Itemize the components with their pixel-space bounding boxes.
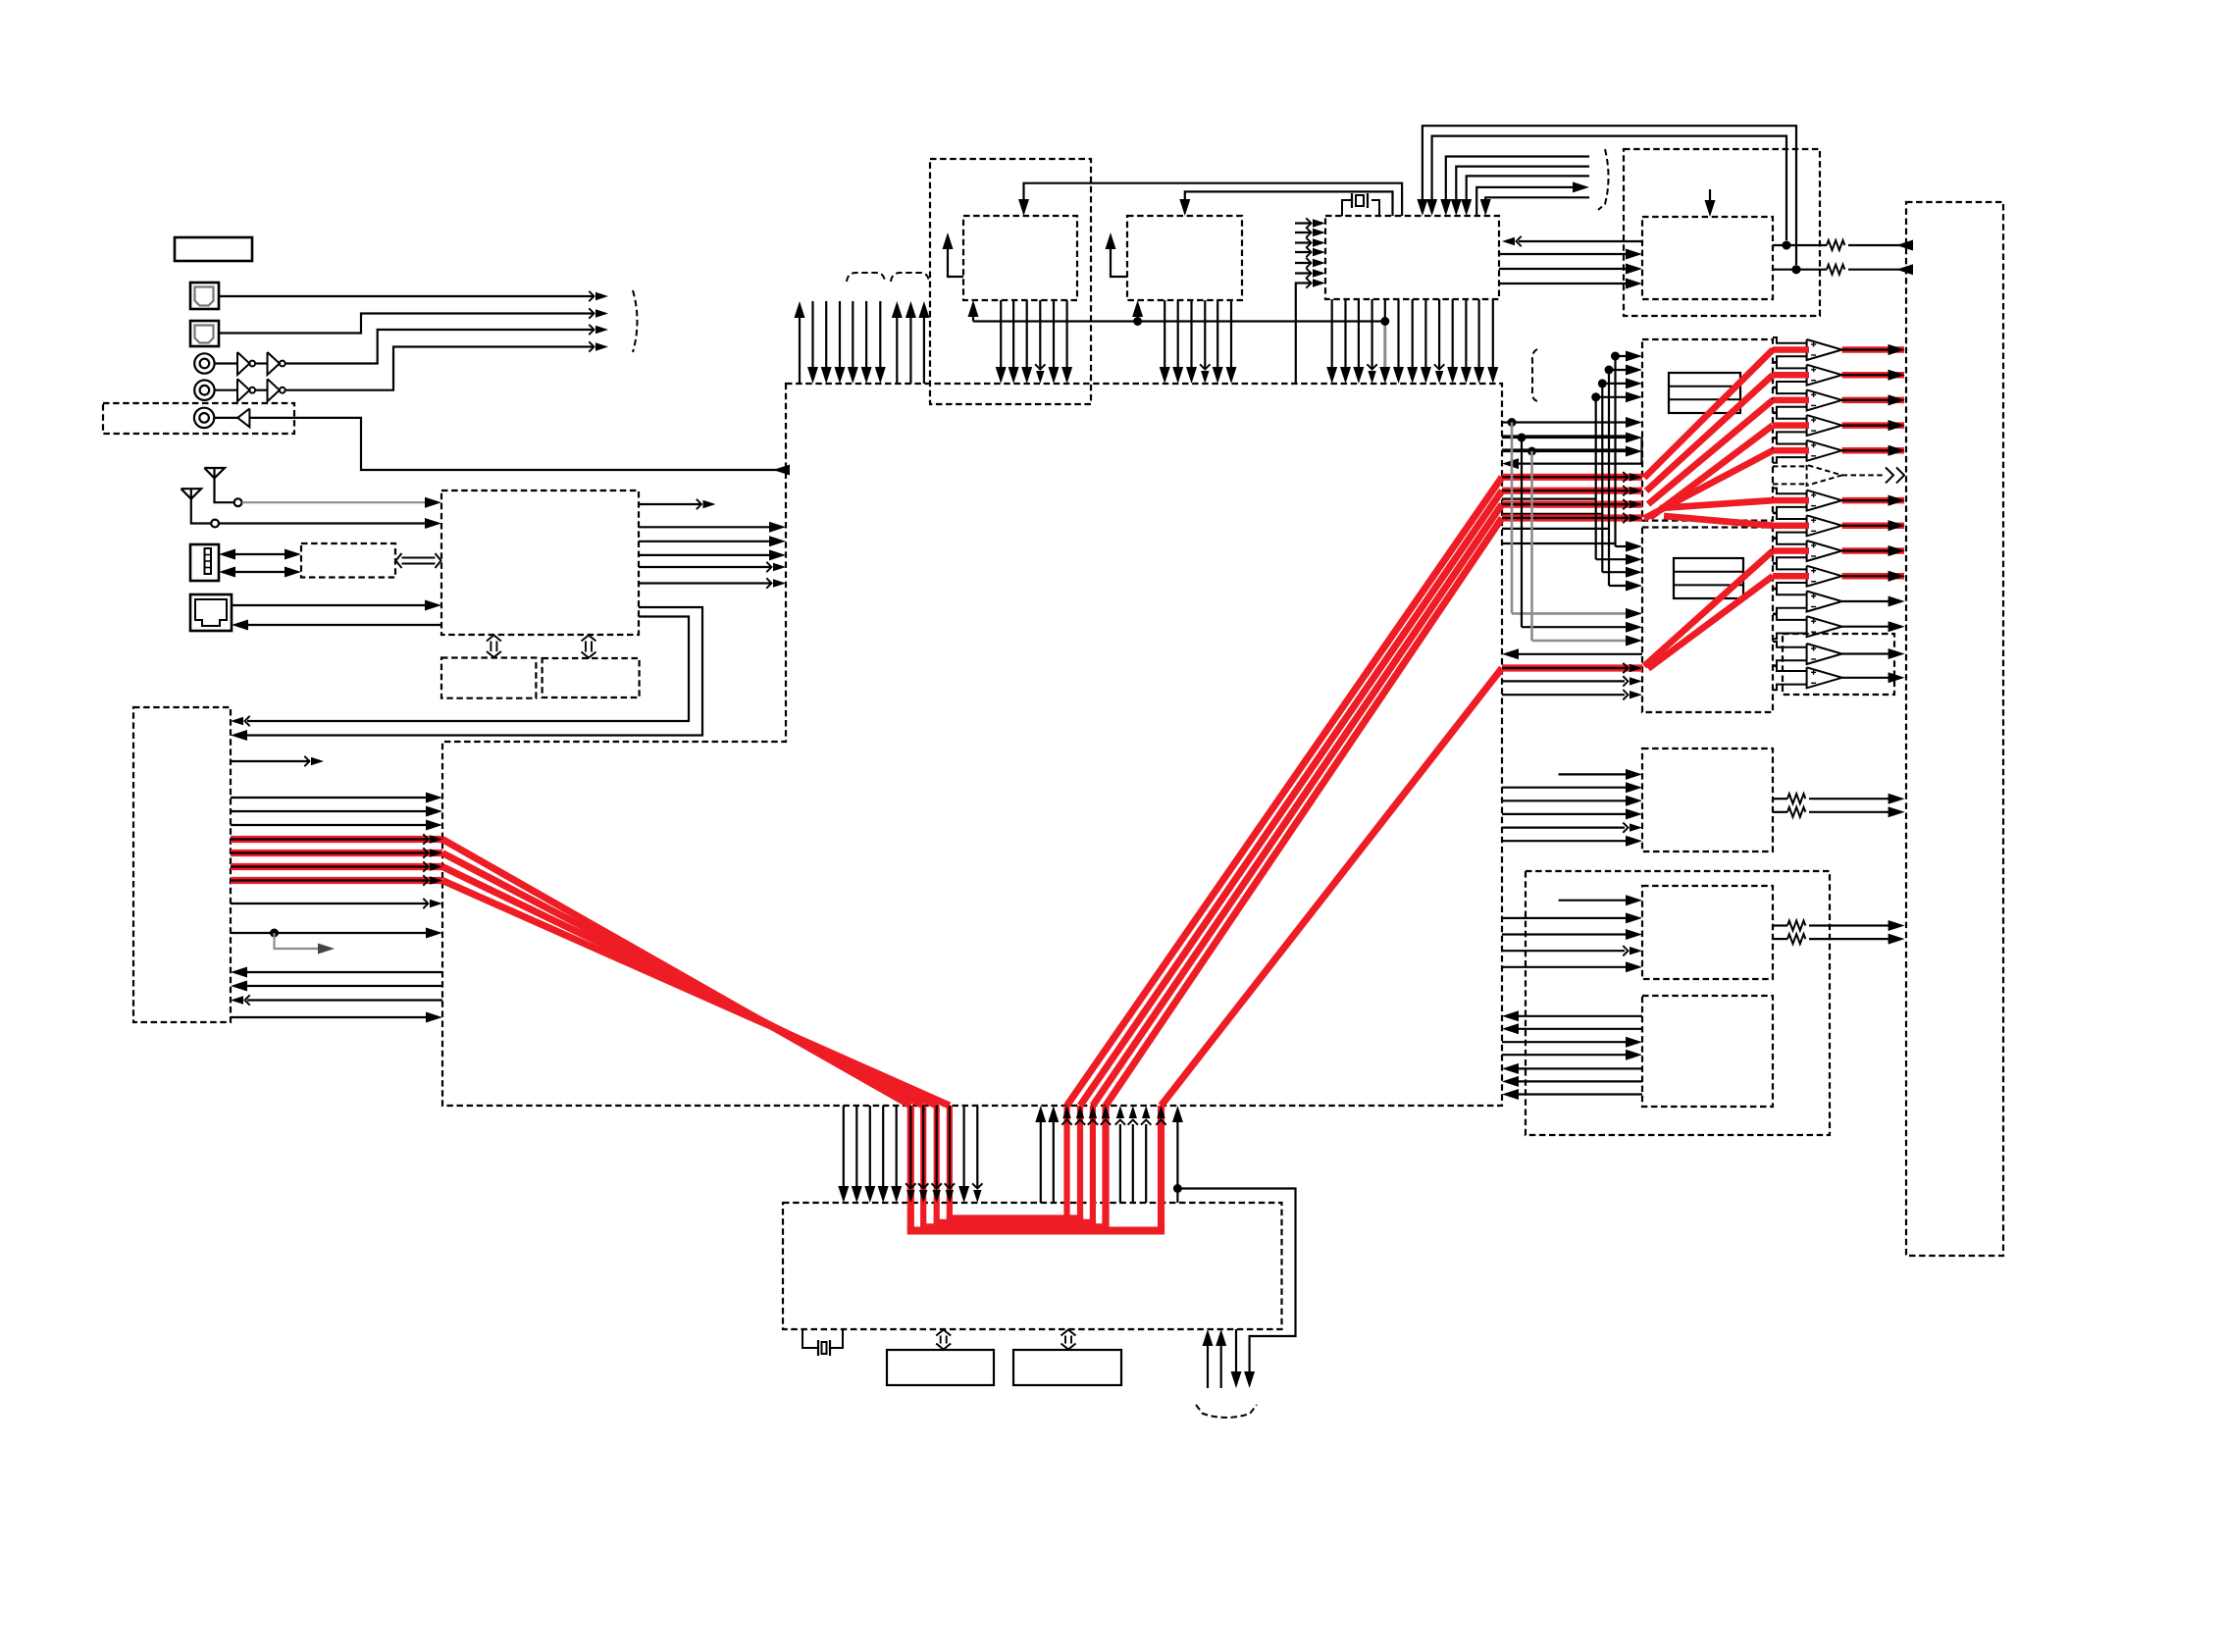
arrow [1313,219,1325,227]
op-amp output wire [1842,399,1889,401]
wire FM to tuner (gray) [242,501,428,503]
red riser 2 [1077,1106,1083,1222]
SoC top bus up arrow [799,306,801,384]
SoC top bus down line 6 [879,301,881,367]
crossover wire 3 to DAC1 [1502,528,1609,530]
arrow into terminal box (over red) [1889,520,1905,531]
wire ethernet tx [232,604,427,606]
module output 4 [639,554,769,556]
arrow [1313,259,1325,267]
arrow into SoC [773,579,786,587]
arrow into decoder [1502,237,1515,245]
arrow coax1 [595,326,608,334]
arrow into postDSP [933,1190,941,1203]
junction node [1783,241,1791,250]
arrow into DAC1 [1602,383,1626,385]
up arrow into chip2 bottom [1136,305,1138,322]
arrow into front panel [231,996,243,1004]
arrow into SoC [426,820,442,831]
red op-amp feed [1773,497,1809,504]
arrow [1630,514,1642,522]
red drop 3 [934,1106,940,1222]
wire coax1 to buffer [215,362,237,364]
antenna ANT1 (FM) [204,468,225,478]
wire optical1 to arrow [219,295,595,297]
red drop 4 [947,1106,953,1218]
red bus U horizontal 3 [934,1219,1097,1225]
crossover vertical 3 [1608,370,1610,586]
postDSP feedback elbow wire [1177,1189,1295,1374]
dashed bracket (digital inputs) [633,290,638,352]
arrow into SoC [426,793,442,803]
module output 1 (short) [639,503,701,505]
red drop 2 [920,1106,926,1226]
wire [255,389,267,391]
optical connector J1 [190,283,219,309]
decoder output line 3 [1358,299,1360,367]
SoC to DAC3 line 6 [1502,840,1626,842]
tap wire to DAC2 [1522,626,1626,628]
wire coax2 jog [285,347,595,390]
junction node chip2 handshake [1133,317,1142,326]
decoder output line 9 [1438,299,1440,369]
SoC to DAC2 chevron line 1 [1502,680,1625,682]
speaker terminal box (dashed) [1906,202,2003,1256]
dashed input stub - [1773,483,1807,485]
red op-amp feed [1773,547,1809,554]
bus double arrow to sub-box1 [490,642,492,652]
chip2 output line 1 [1164,300,1165,367]
dashed cable bracket [1196,1405,1257,1418]
wire module to front-panel (outer) [247,607,702,736]
arrow down [1244,1371,1255,1388]
gray branch wire [275,933,320,949]
arrow into terminal box [1889,394,1905,405]
red op-amp feed [1773,523,1809,530]
postDSP to SoC line 1 [1040,1122,1042,1203]
red op-amp output [1842,422,1904,429]
SoC to postDSP line 6 [962,1106,964,1186]
SoC to postDSP line 1 [843,1106,845,1186]
crossover vertical 1 [1595,397,1597,559]
op-amp output wire [1842,374,1889,376]
short arrow out of front panel [231,760,310,762]
dashed input stub + [1773,465,1807,467]
decoder DSP box (dashed) [1325,216,1499,299]
decoder input line 5 [1295,262,1312,264]
op-amp input stub + [1773,642,1807,647]
arrow optical1 [595,292,608,300]
arrow [1626,264,1642,275]
line-out op-amp U22 [1807,644,1842,664]
op-amp U15 (dashed) [1807,465,1842,486]
sram box A [887,1350,994,1385]
decoder output line 1 [1331,299,1333,367]
DAC1 register table [1669,373,1740,413]
arrow into SoC bottom [1089,1106,1097,1118]
spine line y458.5 [1502,448,1626,450]
chip2 output line 6 [1230,300,1232,367]
SoC to codec line 2 [1502,1054,1626,1056]
red op-amp feed [1773,397,1809,404]
red bus U horizontal 1 [907,1227,1164,1235]
arrow into SoC [430,876,442,884]
arrow into postDSP [906,1190,914,1203]
decoder input line 3 [1295,241,1312,243]
arrow into SoC [773,563,786,571]
chip2 output line 4 [1204,300,1206,369]
decoder to hp DAC line 3 [1499,283,1626,284]
legend box (top-left) [175,237,252,261]
crossover elbow arrow 3 into DAC2 [1602,571,1626,573]
SoC to DAC4 line 1 [1559,900,1626,902]
arrow into SoC [1502,458,1519,469]
op-amp input stub + [1773,439,1807,444]
DAC3 output upper [1773,798,1787,800]
front panel line 16 [231,1016,426,1018]
op-amp input stub + [1773,539,1807,544]
arrow into terminal box (over red) [1889,344,1905,355]
op-amp input stub + [1773,614,1807,620]
arrow into terminal box (over red) [1889,571,1905,582]
wire usb pair 1 [235,553,285,555]
crossover vertical 2 [1601,384,1603,572]
wire chip1 handshake horizontal [973,320,1385,322]
decoder input line 6 [1295,272,1312,274]
arrow into front panel [231,717,243,725]
red diagonal to DAC1 in4 [1106,518,1502,1106]
arrow into terminal box [1889,596,1905,607]
memory chip 2 box (dashed) [1127,216,1242,300]
red op-amp output [1842,523,1904,530]
line-out box (dashed) [1783,634,1894,695]
decoder output line 10 [1452,299,1454,367]
arrow into DAC1 [1596,396,1626,398]
postDSP down line 2 [1235,1329,1237,1373]
SoC to postDSP line 4 [882,1106,884,1186]
op-amp input stub - [1773,583,1807,589]
feedback wire B (to decoder) [1432,136,1786,240]
front panel box (dashed) [133,707,231,1022]
red op-amp feed [1773,422,1809,429]
bus double arrow usb-module [402,557,436,559]
front panel line 12 with branch [231,932,426,934]
crossover elbow arrow 4 into DAC2 [1609,585,1626,587]
codec to SoC line 2 [1519,1028,1642,1030]
gray tap wire to DAC2 [1512,612,1626,615]
op-amp U11 [1807,365,1842,386]
red path SoC to DAC2 [1502,664,1642,671]
red fan inside DAC1 to op5 [1644,450,1773,518]
DAC1 box (dashed) [1642,339,1773,521]
dashed bundle arc 2 [891,273,929,282]
bundle feedback wire 3 [1467,176,1589,206]
module output 2 [639,526,769,528]
bus tap vertical (gray) 1 [1511,423,1514,614]
spine line y430 with tap [1502,421,1626,423]
op-amp output wire [1842,499,1889,501]
op-amp U20 [1807,592,1842,612]
op-amp input stub + [1773,513,1807,519]
decoder output line 5 [1384,299,1386,322]
wire to terminal [1848,269,1907,271]
crossover wire 4 to DAC1 [1502,542,1616,544]
op-amp input stub + [1773,337,1807,343]
wire optical2 jog [219,314,595,334]
arrow [1313,248,1325,256]
codec to SoC line 5 [1519,1080,1642,1082]
op-amp output wire [1842,575,1889,577]
arrow into SoC bottom [1076,1106,1084,1118]
wire coax2 to buffer [215,389,237,391]
feed wire into chip2 [1185,191,1393,216]
codec to SoC line 4 [1519,1067,1642,1069]
bundle feedback wire 1 [1446,157,1589,207]
chip1 output line 4 [1039,300,1041,369]
down arrow into hp DAC [1709,189,1711,207]
dashed arrow [1886,467,1893,483]
red op-amp feed [1773,372,1809,379]
red bus U horizontal 4 [947,1214,1083,1220]
SoC to DAC3 line 2 [1502,787,1626,789]
dashed bundle arc (right) [1598,149,1609,210]
chip2 output line 5 [1216,300,1218,367]
arrow into SoC [430,849,442,856]
op-amp U18 [1807,541,1842,561]
arrow into terminal box (over red) [1889,420,1905,431]
op-amp input stub + [1773,413,1807,419]
chip2 output line 3 [1190,300,1192,367]
crossover wire 2 to DAC1 [1502,513,1602,515]
chip1 output line 6 [1065,300,1067,367]
arrow into SoC bottom [1062,1106,1070,1118]
SoC top bus down line 1 [811,301,813,367]
postDSP up line 2 [1220,1346,1222,1388]
crossover wire 1 to DAC1 [1502,498,1596,500]
arrow into terminal box [1889,571,1905,582]
arrow into terminal box [1889,495,1905,506]
arrow into DAC1 [1609,369,1626,371]
ethernet connector J7 [190,594,232,631]
red riser 3 [1090,1106,1096,1226]
arrow [1626,249,1642,260]
red op-amp output [1842,346,1904,353]
chip1 side up arrow wire [948,238,963,277]
arrow into chip2 top [1179,199,1190,216]
arrow into terminal box [1889,445,1905,456]
SoC top bus down line 5 [865,301,867,367]
red path front-panel line 4 [231,877,442,884]
arrow up [943,232,954,249]
arrow [311,757,324,765]
SoC top bus down line 2 [825,301,827,367]
op-amp input stub - [1773,407,1807,413]
red diagonal 2 [442,853,923,1107]
op-amp U14 [1807,440,1842,461]
arrow into SoC [1502,648,1519,659]
arrow coax2 [595,342,608,350]
chip2 side up arrow wire [1111,238,1127,277]
arrow into postDSP [946,1190,954,1203]
red diagonal to DAC1 in2 [1080,490,1502,1106]
bus double arrow to sub-box2 [585,642,587,652]
bundle wire with arrow (right) [1476,187,1574,216]
postDSP up line 1 [1207,1346,1209,1388]
red fan inside DAC1 to op1 [1644,350,1773,479]
op-amp input stub + [1773,387,1807,393]
coax connector J4 [194,381,214,400]
digital out module box (dashed) [103,403,294,434]
wire [214,417,237,419]
junction node [1591,392,1600,401]
op-amp U17 [1807,515,1842,536]
op-amp output wire [1842,449,1889,451]
op-amp input stub - [1773,608,1807,614]
arrow into SoC [430,835,442,843]
gray branch arrow [318,944,335,955]
red op-amp feed [1773,573,1809,580]
USB connector J6 [190,544,219,581]
red op-amp output [1842,447,1904,454]
chip1 output line 3 [1026,300,1028,367]
decoder crystal X1 loop [1342,200,1352,216]
wire coax out jog [249,418,786,470]
op-amp input stub - [1773,660,1807,666]
DAC4 box (dashed) [1642,886,1773,979]
op-amp input stub - [1773,507,1807,513]
decoder output line 11 [1465,299,1467,367]
coax connector J5 (digital out) [194,408,214,428]
SoC to DAC3 line 3 [1502,800,1626,801]
buffer U2b [268,379,280,401]
hp output wire upper [1773,244,1827,246]
chip2 output line 2 [1177,300,1179,367]
arrow into terminal box (over red) [1889,545,1905,556]
arrow into terminal box (over red) [1889,445,1905,456]
arrow right [285,567,301,578]
bus double arrow to sram A [940,1336,942,1344]
arrow into terminal box [1889,420,1905,431]
arrow into terminal box [1889,545,1905,556]
red op-amp output [1842,573,1904,580]
red path SoC to DAC1 line1 [1502,474,1642,481]
red diagonal to DAC1 in3 [1093,504,1502,1106]
red op-amp output [1842,372,1904,379]
wire module to front-panel (inner) [247,617,689,722]
decoder output line 7 [1412,299,1414,367]
SoC to postDSP line 2 [855,1106,857,1186]
SoC to DAC3 line 4 [1502,813,1626,815]
red diagonal 3 [442,867,937,1107]
arrow into terminal box [1889,520,1905,531]
postDSP to SoC chevron line 1 [1119,1124,1121,1203]
arrow into connector [232,620,248,631]
arrow into terminal box [1889,370,1905,381]
arrow into SoC [426,806,442,817]
op-amp input stub - [1773,557,1807,563]
module sub-box 2 (dashed) [543,658,640,697]
SoC top bus up arrow 3 [909,306,911,384]
op-amp output wire [1842,677,1889,679]
codec to SoC line 1 [1519,1015,1642,1017]
arrow into SoC bottom [1157,1106,1164,1118]
spine line y460 with tap [1502,450,1626,452]
SoC to codec line 1 [1502,1041,1626,1043]
arrow [1630,487,1642,494]
SoC to DAC3 line 5 [1502,826,1625,828]
front panel line 4 [231,797,426,799]
module output 6 [639,582,771,584]
SoC to postDSP line 7 (chevron) [976,1106,978,1188]
junction node [270,929,279,938]
red riser 1 [1063,1106,1069,1218]
postDSP to SoC chevron line 3 [1145,1124,1147,1203]
red op-amp output [1842,497,1904,504]
DAC3 output lower [1773,811,1787,813]
red op-amp feed [1773,346,1809,353]
antenna ANT2 (AM) [181,489,202,498]
red diagonal to DAC1 in1 [1067,477,1503,1106]
op-amp U16 [1807,490,1842,511]
red riser 5 (tall) [1158,1106,1164,1230]
codec to SoC line 6 [1519,1093,1642,1095]
op-amp input stub + [1773,363,1807,369]
decoder output line 12 [1477,299,1479,367]
decoder to hp DAC line 1 [1499,253,1626,255]
decoder output line 4 [1371,299,1372,369]
op-amp input stub - [1773,685,1807,691]
op-amp output wire [1842,348,1889,350]
optical connector J2 [190,321,219,346]
decoder output line 2 [1344,299,1346,367]
arrow (left) at terminal box [1896,240,1913,251]
red fan inside DAC1 to op7 (shallow) [1660,500,1773,508]
resistor R2 [1827,265,1844,275]
DAC4 output lower [1773,938,1787,940]
red op-amp output [1842,397,1904,404]
red fan inside DAC1 to op3 [1648,400,1773,504]
junction node [1605,366,1614,375]
red path SoC to DAC1 line4 [1502,514,1642,521]
hp DAC to decoder wire [1519,240,1642,242]
SoC to DAC2 chevron line 2 [1502,694,1625,696]
bus tap vertical (gray) 3 [1530,451,1533,641]
buffer U1a [237,352,249,375]
DAC2 mute feedback wire [1519,653,1642,655]
front panel line 11 (chevron) [231,903,428,904]
module output 3 [639,541,769,542]
decoder output line 8 [1424,299,1426,367]
DAC1 mute feedback wire [1519,438,1642,464]
dashed bundle arc 1 [847,273,885,282]
arrow up [1106,232,1116,249]
surround module outer box (dashed) [1526,871,1830,1135]
arrow into terminal box [1889,344,1905,355]
red path SoC to DAC1 line3 [1502,500,1642,507]
arrow into terminal box (over red) [1889,394,1905,405]
arrow into SoC [430,900,442,907]
arrow into front panel [231,730,247,741]
SoC to DAC4 line 3 [1502,933,1626,935]
arrow left [219,567,235,578]
arrow into SoC [426,928,442,939]
arrow left [219,549,235,560]
arrow [1313,269,1325,277]
op-amp U19 [1807,566,1842,587]
arrow FM into module [425,497,441,508]
chip1 output line 2 [1012,300,1014,367]
junction node on handshake wire [1380,317,1389,326]
